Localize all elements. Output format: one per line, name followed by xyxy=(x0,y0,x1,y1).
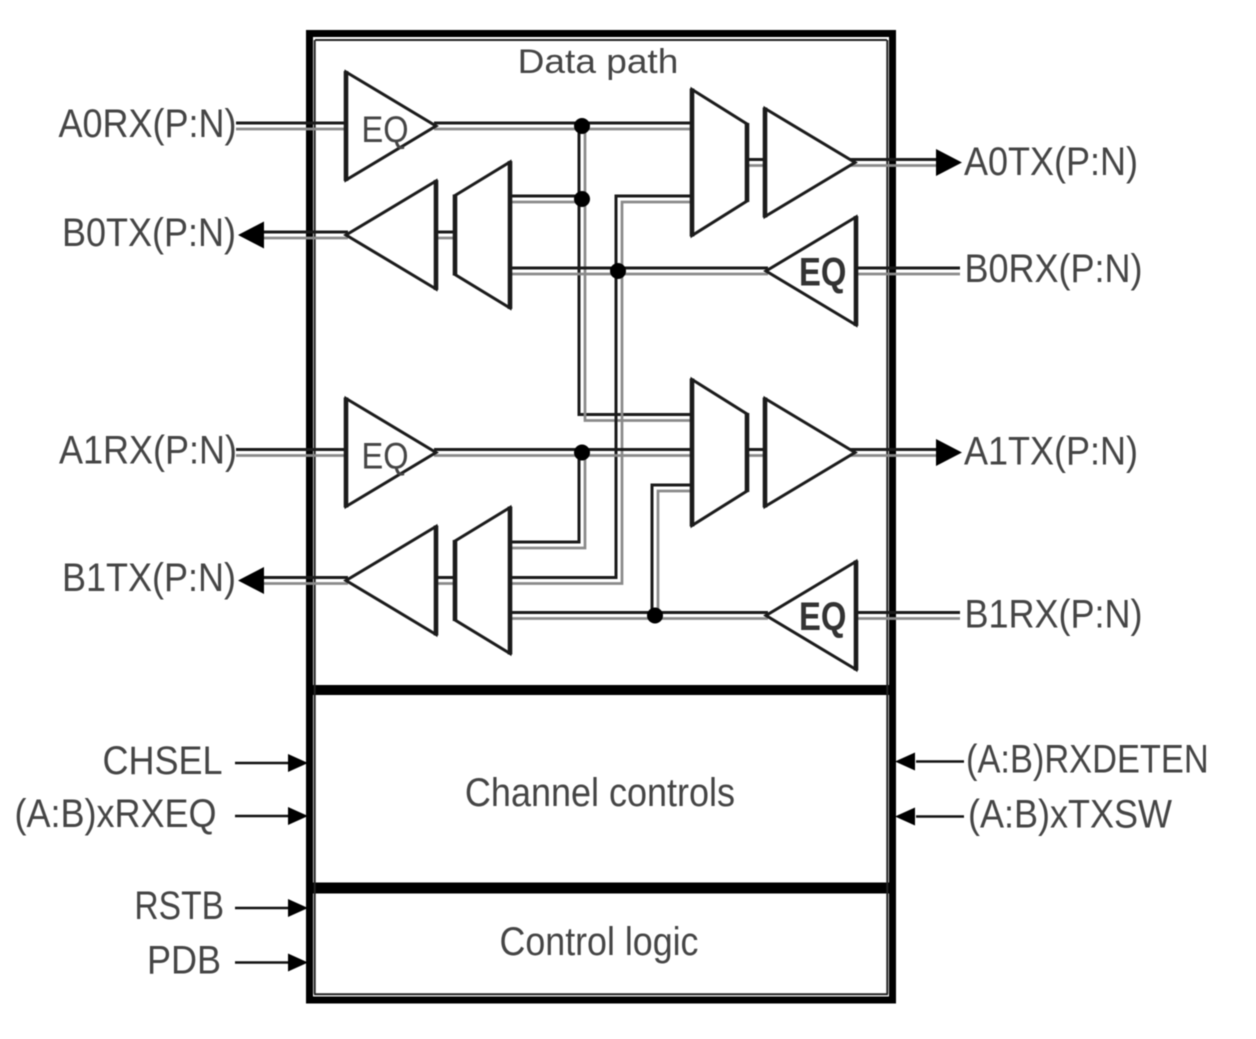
wire B0RX EQ output to B0TX mux xyxy=(510,268,768,274)
arrowhead A0TX output xyxy=(936,149,962,176)
wire A1TX mux output stub xyxy=(747,450,767,456)
channel controls block border xyxy=(310,692,893,887)
mux B1TX 3:1 xyxy=(455,507,510,655)
svg-text:CHSEL: CHSEL xyxy=(102,739,222,783)
port label A1RX(P:N) xyxy=(59,429,237,473)
buffer amplifier B0TX xyxy=(346,180,436,290)
svg-text:EQ: EQ xyxy=(799,594,846,639)
arrow PDB input xyxy=(235,954,308,972)
wire A0RX port to EQ xyxy=(236,123,348,129)
composite outline inner line left xyxy=(314,40,316,994)
svg-text:A0RX(P:N): A0RX(P:N) xyxy=(58,102,236,146)
arrowhead B1TX output xyxy=(238,567,264,594)
junction node A0RX split xyxy=(574,118,590,134)
wire EQ A1 output to A1TX mux with node xyxy=(434,450,692,456)
port label B0RX(P:N) xyxy=(965,247,1143,291)
net B0RX vertical bus down to B1TX mux input xyxy=(510,271,622,584)
wire B0TX mux output stub xyxy=(436,232,454,238)
port label (A:B)xTXSW xyxy=(968,793,1172,837)
net A1RX vertical branch to B1TX mux input xyxy=(510,453,585,549)
composite outline inner line right xyxy=(886,40,888,994)
junction node B0RX split xyxy=(610,263,626,279)
wire EQ A0 output to A0TX mux with node xyxy=(434,123,692,129)
svg-text:EQ: EQ xyxy=(362,436,409,477)
EQ label A0RX xyxy=(362,109,409,150)
wire B0RX port to EQ xyxy=(854,268,960,274)
svg-text:B0TX(P:N): B0TX(P:N) xyxy=(62,211,236,255)
svg-text:A1TX(P:N): A1TX(P:N) xyxy=(964,430,1138,474)
junction node A1RX split xyxy=(574,445,590,461)
svg-text:EQ: EQ xyxy=(799,249,846,294)
wire B1RX EQ output to B1TX mux xyxy=(510,613,768,619)
svg-text:(A:B)RXDETEN: (A:B)RXDETEN xyxy=(966,736,1209,781)
svg-text:RSTB: RSTB xyxy=(134,883,224,927)
buffer amplifier A1TX xyxy=(765,398,855,508)
svg-text:B1RX(P:N): B1RX(P:N) xyxy=(965,593,1143,637)
port label CHSEL xyxy=(102,739,222,783)
EQ amplifier B0RX xyxy=(766,216,856,326)
arrow (A:B)RXDETEN input xyxy=(895,753,964,771)
arrow CHSEL input xyxy=(235,754,308,772)
EQ amplifier A0RX xyxy=(346,71,436,181)
label Channel controls xyxy=(465,771,735,815)
arrow RSTB input xyxy=(235,899,308,917)
EQ label A1RX xyxy=(362,436,409,477)
title Data path xyxy=(518,42,679,80)
port label B1RX(P:N) xyxy=(965,593,1143,637)
control logic block border xyxy=(310,890,893,1000)
data path block inner border top line xyxy=(315,39,887,41)
mux B0TX 2:1 xyxy=(455,161,510,309)
port label B0TX(P:N) xyxy=(62,211,236,255)
wire A1RX port to EQ xyxy=(236,450,348,456)
net B0RX vertical bus up to A0TX mux input xyxy=(616,196,692,271)
port label PDB xyxy=(147,939,221,983)
svg-text:EQ: EQ xyxy=(362,109,409,150)
svg-text:(A:B)xRXEQ: (A:B)xRXEQ xyxy=(15,792,217,836)
svg-text:PDB: PDB xyxy=(147,939,221,983)
arrow (A:B)xTXSW input xyxy=(895,808,964,826)
net B1RX vertical bus up to A1TX mux input xyxy=(652,485,692,616)
mux A1TX 3:1 xyxy=(692,379,747,527)
port label (A:B)RXDETEN xyxy=(966,736,1209,781)
EQ amplifier A1RX xyxy=(346,398,436,508)
port label A1TX(P:N) xyxy=(964,430,1138,474)
buffer amplifier A0TX xyxy=(765,108,855,218)
junction node B1RX split xyxy=(647,608,663,624)
svg-text:A1RX(P:N): A1RX(P:N) xyxy=(59,429,237,473)
EQ label B1RX xyxy=(799,594,846,639)
mux A0TX 2:1 xyxy=(692,89,747,237)
svg-text:Data path: Data path xyxy=(518,42,679,80)
wire node to B0TX mux top input xyxy=(510,196,582,202)
port label RSTB xyxy=(134,883,224,927)
label Control logic xyxy=(500,920,699,964)
svg-text:Channel controls: Channel controls xyxy=(465,771,735,815)
wire B0TX triangle to port arrow xyxy=(264,232,348,238)
arrowhead B0TX output xyxy=(238,222,264,249)
buffer amplifier B1TX xyxy=(346,526,436,636)
wire A1TX triangle to port arrow xyxy=(850,450,939,456)
composite outline inner line bottom xyxy=(314,993,888,995)
port label B1TX(P:N) xyxy=(62,556,236,600)
EQ label B0RX xyxy=(799,249,846,294)
net A0RX vertical bus to A1TX mux input xyxy=(579,126,692,421)
svg-text:B1TX(P:N): B1TX(P:N) xyxy=(62,556,236,600)
port label A0RX(P:N) xyxy=(58,102,236,146)
arrowhead A1TX output xyxy=(936,439,962,466)
wire B1TX triangle to port arrow xyxy=(264,578,348,584)
svg-text:(A:B)xTXSW: (A:B)xTXSW xyxy=(968,793,1172,837)
port label (A:B)xRXEQ xyxy=(15,792,217,836)
wire B1RX port to EQ xyxy=(854,613,960,619)
junction node B0TX mux top input xyxy=(574,191,590,207)
port label A0TX(P:N) xyxy=(964,140,1138,184)
wire A0TX triangle to port arrow xyxy=(850,160,939,166)
EQ amplifier B1RX xyxy=(766,561,856,671)
svg-text:A0TX(P:N): A0TX(P:N) xyxy=(964,140,1138,184)
svg-text:Control logic: Control logic xyxy=(500,920,699,964)
data path block outer border xyxy=(310,34,893,689)
arrow (A:B)xRXEQ input xyxy=(235,807,308,825)
wire B1TX mux output stub xyxy=(436,578,454,584)
svg-text:B0RX(P:N): B0RX(P:N) xyxy=(965,247,1143,291)
wire A0TX mux output stub xyxy=(747,160,767,166)
